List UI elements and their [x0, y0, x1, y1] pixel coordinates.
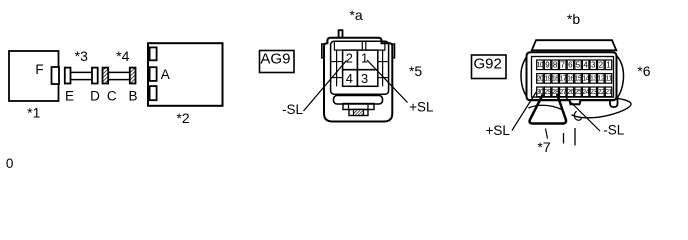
svg-text:5: 5: [576, 60, 581, 69]
connector *b pigtail outline: [572, 98, 632, 118]
svg-text:F: F: [35, 62, 43, 77]
svg-text:18: 18: [552, 76, 559, 83]
connector *b pin row 1 (10-1): [537, 60, 612, 70]
wire stub 2: [574, 128, 576, 146]
svg-text:A: A: [161, 67, 170, 82]
connector *a lower slot: [334, 96, 383, 105]
connector *a inner housing: [331, 41, 389, 94]
connector *a top tab: [339, 30, 343, 38]
connector *a right bump: [392, 44, 395, 58]
connector *a right side channel: [378, 50, 388, 86]
component box *1 (sensor body F): [9, 51, 59, 101]
wire stub 1: [563, 133, 565, 144]
label *5: [409, 63, 422, 79]
connector *a left side channel: [331, 50, 342, 86]
svg-text:*4: *4: [116, 48, 129, 64]
label D: [90, 88, 100, 103]
connector *b lid: [532, 40, 617, 50]
svg-text:*3: *3: [75, 48, 88, 64]
connector *a top band left section: [334, 41, 362, 50]
label *4: [116, 48, 129, 64]
label *1: [27, 104, 40, 120]
svg-text:3: 3: [361, 71, 368, 86]
connector *a pin 1: [361, 51, 368, 66]
connector *b left ear: [521, 52, 532, 97]
svg-text:10: 10: [537, 62, 544, 69]
label -SL (connector *a): [282, 102, 304, 117]
svg-text:1: 1: [606, 60, 611, 69]
label -SL (connector *b): [603, 123, 625, 138]
svg-text:*5: *5: [409, 63, 422, 79]
connector *a pin 3: [361, 71, 368, 86]
terminal tabs on box *2: [150, 47, 157, 100]
page number 0: [6, 156, 14, 171]
boot *7 (sensor rotor cover): [530, 94, 566, 124]
connector *4 (hatched sleeve C-B): [103, 68, 136, 84]
svg-text:*1: *1: [27, 104, 40, 120]
svg-text:6: 6: [568, 60, 573, 69]
svg-text:17: 17: [559, 76, 566, 83]
svg-text:11: 11: [605, 76, 612, 83]
svg-text:*2: *2: [176, 110, 189, 126]
leader line -SL to pin 2: [304, 61, 347, 112]
svg-text:20: 20: [537, 76, 544, 83]
svg-text:*6: *6: [637, 63, 650, 79]
label E: [65, 88, 74, 103]
svg-text:+SL: +SL: [409, 100, 434, 115]
svg-text:B: B: [128, 88, 137, 103]
label *2: [176, 110, 189, 126]
label *7: [537, 139, 550, 155]
svg-text:-SL: -SL: [603, 123, 625, 138]
svg-text:24: 24: [582, 89, 589, 96]
connector *b pin row 2 (20-11): [537, 74, 613, 84]
svg-text:16: 16: [567, 76, 574, 83]
connector *a top band right section: [366, 41, 385, 50]
svg-text:21: 21: [605, 89, 612, 96]
svg-text:*a: *a: [349, 7, 362, 23]
label +SL (connector *a): [409, 100, 434, 115]
svg-text:22: 22: [598, 89, 605, 96]
wire arc through boot: [529, 105, 564, 110]
connector *a pin 2: [346, 51, 353, 66]
svg-text:3: 3: [591, 60, 596, 69]
svg-text:2: 2: [346, 51, 353, 66]
terminal tab F on box *1: [52, 67, 60, 84]
wire hook right of boot: [574, 111, 581, 120]
label *a: [349, 7, 362, 23]
svg-text:29: 29: [544, 89, 551, 96]
svg-text:13: 13: [590, 76, 597, 83]
connector *b body: [527, 52, 617, 104]
label F: [35, 62, 43, 77]
svg-text:1: 1: [361, 51, 368, 66]
leader line -SL to pin 27: [566, 98, 600, 132]
svg-text:E: E: [65, 88, 74, 103]
code box G92: [472, 55, 507, 79]
svg-text:27: 27: [559, 89, 566, 96]
connector *a bottom latch: [343, 104, 374, 116]
leader line +SL to pin 1: [367, 60, 408, 103]
svg-text:AG9: AG9: [260, 50, 290, 67]
connector *3 (plain sleeve E-D): [65, 68, 98, 84]
connector *b pin row 3 (30-21): [537, 87, 613, 97]
svg-text:2: 2: [599, 60, 604, 69]
connector *b bottom-right tab: [610, 97, 618, 108]
svg-text:0: 0: [6, 156, 14, 171]
label A: [161, 67, 170, 82]
leader line +SL to pin 30: [512, 92, 537, 131]
svg-text:*b: *b: [567, 11, 580, 27]
svg-text:19: 19: [544, 76, 551, 83]
svg-text:26: 26: [567, 89, 574, 96]
label +SL (connector *b): [485, 123, 510, 138]
svg-text:25: 25: [575, 89, 582, 96]
label C: [107, 88, 117, 103]
svg-text:G92: G92: [474, 55, 502, 72]
connector *a left bump: [322, 44, 325, 58]
component box *2 (meter A): [148, 43, 223, 106]
svg-text:9: 9: [545, 60, 550, 69]
svg-text:-SL: -SL: [282, 102, 304, 117]
leader line *7 to boot: [546, 129, 548, 139]
svg-text:*7: *7: [537, 139, 550, 155]
connector *a body: [324, 38, 392, 122]
svg-text:12: 12: [598, 76, 605, 83]
svg-text:23: 23: [590, 89, 597, 96]
code box AG9: [260, 50, 295, 72]
svg-text:4: 4: [583, 60, 588, 69]
connector *b terminal frame: [532, 57, 614, 98]
connector *a terminal block: [343, 50, 378, 86]
svg-text:+SL: +SL: [485, 123, 510, 138]
svg-text:C: C: [107, 88, 117, 103]
svg-text:D: D: [90, 88, 100, 103]
svg-text:15: 15: [575, 76, 582, 83]
label *3: [75, 48, 88, 64]
connector *b right ear: [613, 52, 624, 99]
svg-text:4: 4: [346, 71, 353, 86]
label *b: [567, 11, 580, 27]
label B: [128, 88, 137, 103]
svg-text:14: 14: [582, 76, 589, 83]
svg-text:8: 8: [553, 60, 558, 69]
connector *a pin 4: [346, 71, 353, 86]
label *6: [637, 63, 650, 79]
svg-text:7: 7: [561, 60, 566, 69]
